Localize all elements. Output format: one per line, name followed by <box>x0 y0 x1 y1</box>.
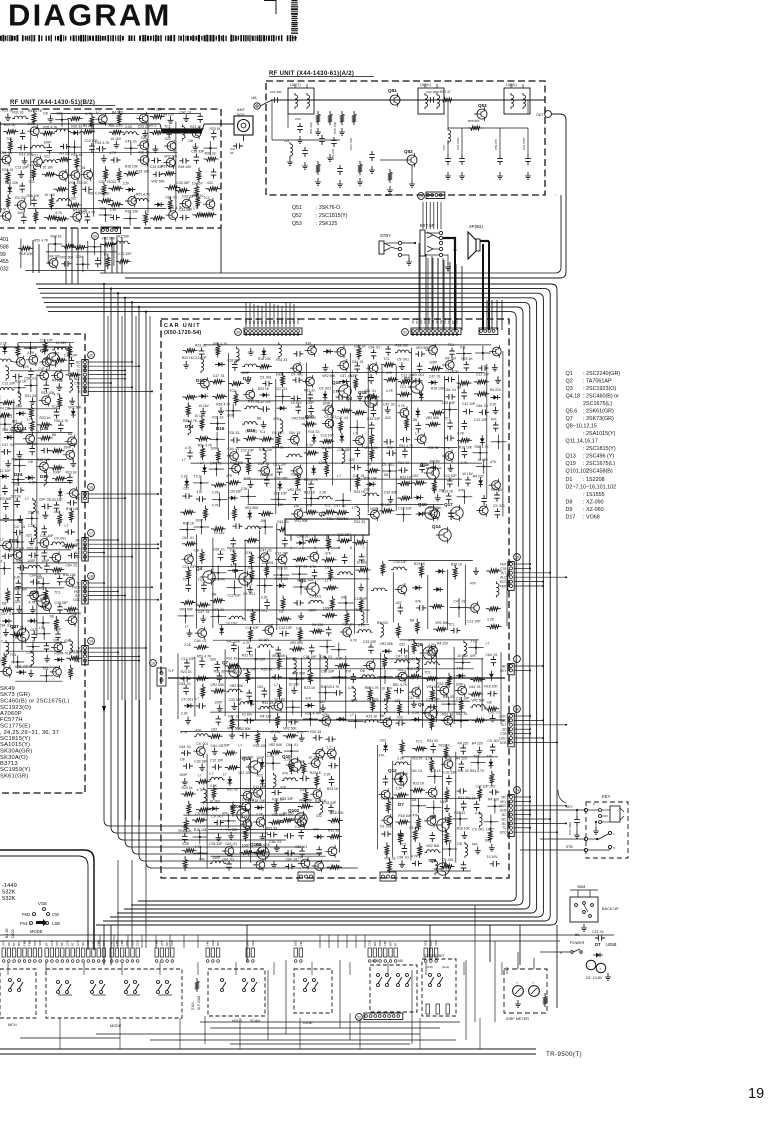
svg-text:L7: L7 <box>182 458 186 462</box>
svg-text:.022: .022 <box>395 601 402 605</box>
svg-text:10 16V: 10 16V <box>192 182 203 186</box>
svg-text:R18 10K: R18 10K <box>275 577 289 581</box>
svg-text:.022: .022 <box>394 699 401 703</box>
svg-text:C47 .01: C47 .01 <box>396 655 408 659</box>
svg-text:Q4: Q4 <box>196 566 203 571</box>
svg-text:TONE: TONE <box>302 1021 313 1025</box>
svg-text:10 16V: 10 16V <box>259 638 270 642</box>
svg-text:C33 33P: C33 33P <box>191 150 205 154</box>
svg-text:TC1: TC1 <box>230 549 237 553</box>
svg-text:TC1: TC1 <box>400 843 407 847</box>
svg-text:C64 .01: C64 .01 <box>211 744 223 748</box>
svg-text:STB: STB <box>566 845 573 849</box>
svg-text:VR2 50K: VR2 50K <box>299 799 313 803</box>
svg-text:.022: .022 <box>56 112 63 116</box>
svg-text:C12 10P: C12 10P <box>243 667 257 671</box>
svg-text:L7: L7 <box>238 743 242 747</box>
svg-text:R18 10K: R18 10K <box>398 814 412 818</box>
svg-text:C47 .01: C47 .01 <box>454 600 466 604</box>
svg-text:10 16V: 10 16V <box>110 137 121 141</box>
svg-text:D104: D104 <box>191 1002 195 1010</box>
svg-text:C47 .01: C47 .01 <box>383 402 395 406</box>
svg-text:CCB: CCB <box>136 940 140 946</box>
svg-text:FMR: FMR <box>155 940 159 946</box>
svg-text:2.2K: 2.2K <box>26 665 34 669</box>
svg-text:L7: L7 <box>353 431 357 435</box>
svg-text:R18 10K: R18 10K <box>395 772 409 776</box>
svg-text:2.2K: 2.2K <box>336 657 344 661</box>
svg-text:C33 33P: C33 33P <box>179 208 193 212</box>
svg-text:C51 39P: C51 39P <box>270 90 282 94</box>
svg-text:C64 .01: C64 .01 <box>486 653 498 657</box>
svg-text:10 16V: 10 16V <box>27 442 38 446</box>
svg-text:Q3: Q3 <box>232 568 239 573</box>
svg-text:4.7K: 4.7K <box>358 623 366 627</box>
svg-text:100P: 100P <box>214 701 223 705</box>
svg-text:B6: B6 <box>575 933 579 937</box>
svg-text:100P: 100P <box>276 372 285 376</box>
svg-text:C9 .001: C9 .001 <box>367 698 379 702</box>
svg-text:D14: D14 <box>185 424 194 429</box>
svg-text:10 16V: 10 16V <box>214 531 225 535</box>
svg-text:455: 455 <box>0 259 9 265</box>
svg-text:.022: .022 <box>396 796 403 800</box>
svg-text:RF UNIT (X44-1430-51)(B/2): RF UNIT (X44-1430-51)(B/2) <box>10 100 95 106</box>
svg-text:L7: L7 <box>39 626 43 630</box>
svg-text:.022: .022 <box>412 474 419 478</box>
svg-text:Q101: Q101 <box>230 804 242 809</box>
svg-text:TC1: TC1 <box>473 754 480 758</box>
svg-text:47K: 47K <box>415 599 422 603</box>
svg-text:47K: 47K <box>306 341 313 345</box>
svg-text:L7: L7 <box>195 697 199 701</box>
svg-text:.022: .022 <box>364 488 371 492</box>
svg-text:KEY: KEY <box>500 669 507 673</box>
svg-text:D8: D8 <box>278 503 282 507</box>
svg-text:100P: 100P <box>323 606 332 610</box>
svg-text:(X50-1720-54): (X50-1720-54) <box>164 330 201 336</box>
svg-text:100P: 100P <box>256 756 265 760</box>
svg-text:R51 4.7K: R51 4.7K <box>161 164 176 168</box>
svg-text:SCC: SCC <box>74 555 81 559</box>
svg-text:D8: D8 <box>412 798 416 802</box>
svg-text:2.2K: 2.2K <box>212 491 220 495</box>
svg-text:R31 33: R31 33 <box>139 151 150 155</box>
svg-text:C12 10P: C12 10P <box>462 402 476 406</box>
svg-text:S/RF METER: S/RF METER <box>506 1017 529 1021</box>
svg-text:DOC: DOC <box>499 804 507 808</box>
svg-text:MS: MS <box>17 942 21 946</box>
svg-text:R23 1K: R23 1K <box>366 714 378 718</box>
svg-text:D8: D8 <box>68 432 72 436</box>
svg-text:C12 10P: C12 10P <box>279 626 293 630</box>
svg-text:R18 10K: R18 10K <box>194 828 208 832</box>
svg-text:47K: 47K <box>306 504 313 508</box>
svg-text:VR2 50K: VR2 50K <box>294 519 308 523</box>
svg-text:Q7: Q7 <box>222 660 229 665</box>
svg-text:10 16V: 10 16V <box>289 682 300 686</box>
svg-text:HOLD: HOLD <box>232 1019 242 1023</box>
svg-text:L7: L7 <box>198 773 202 777</box>
svg-text:C47 .01: C47 .01 <box>488 711 500 715</box>
svg-text:C33 33P: C33 33P <box>49 498 63 502</box>
svg-text:C64 .01: C64 .01 <box>456 712 468 716</box>
svg-text:R23 1K: R23 1K <box>261 667 273 671</box>
svg-text:R23 1K: R23 1K <box>51 235 63 239</box>
svg-text:SBM: SBM <box>577 885 585 889</box>
svg-text:4.7K: 4.7K <box>86 112 94 116</box>
svg-text:100P: 100P <box>195 519 204 523</box>
svg-text:VGB: VGB <box>38 901 47 906</box>
svg-text:: 3SK73(GR): : 3SK73(GR) <box>583 416 614 422</box>
svg-text:TC1: TC1 <box>459 345 466 349</box>
svg-text:FMR: FMR <box>97 940 101 946</box>
svg-text:CCB: CCB <box>296 318 300 324</box>
svg-text:100P: 100P <box>226 414 235 418</box>
svg-text:47K: 47K <box>386 371 393 375</box>
svg-text:Q8: Q8 <box>430 814 437 819</box>
svg-text:R23 1K: R23 1K <box>327 787 339 791</box>
svg-text:10 16V: 10 16V <box>242 712 253 716</box>
svg-text:10 16V: 10 16V <box>43 165 54 169</box>
svg-text:TC: TC <box>502 826 507 830</box>
svg-text:VR2 50K: VR2 50K <box>60 255 74 259</box>
svg-text:R51 4.7K: R51 4.7K <box>54 419 69 423</box>
svg-text:R51 4.7K: R51 4.7K <box>43 125 58 129</box>
svg-text:C64 .01: C64 .01 <box>24 376 36 380</box>
svg-text:FM1: FM1 <box>110 940 114 946</box>
svg-text:C33 33P: C33 33P <box>442 401 456 405</box>
svg-text:C47 .01: C47 .01 <box>334 504 346 508</box>
svg-text:VR2 50K: VR2 50K <box>151 179 165 183</box>
svg-text:R31 33: R31 33 <box>262 701 273 705</box>
svg-text:VR2 50K: VR2 50K <box>245 506 259 510</box>
svg-text:TC1: TC1 <box>229 389 236 393</box>
svg-text:R31 33: R31 33 <box>276 358 287 362</box>
svg-text:100P: 100P <box>222 744 231 748</box>
svg-text:36: 36 <box>515 708 519 712</box>
svg-text:5: 5 <box>338 546 340 550</box>
svg-text:R51 4.7K: R51 4.7K <box>136 193 151 197</box>
svg-text:R4 220: R4 220 <box>488 797 499 801</box>
svg-text:TC1: TC1 <box>424 670 431 674</box>
svg-text:R23 1K: R23 1K <box>337 517 349 521</box>
svg-text:D7: D7 <box>398 802 404 807</box>
svg-text:R51 4.7K: R51 4.7K <box>365 686 380 690</box>
svg-text:4.7K: 4.7K <box>40 597 48 601</box>
svg-text:C9 .001: C9 .001 <box>493 504 505 508</box>
svg-text:TC1: TC1 <box>324 503 331 507</box>
svg-text:R23 1K: R23 1K <box>12 457 24 461</box>
svg-text:R31 33: R31 33 <box>25 394 36 398</box>
svg-text:4.7K: 4.7K <box>28 601 36 605</box>
svg-text:47K: 47K <box>470 654 477 658</box>
svg-text:VR2 50K: VR2 50K <box>288 488 302 492</box>
svg-text:47K: 47K <box>457 666 464 670</box>
svg-text:C64 .01: C64 .01 <box>295 845 307 849</box>
svg-text:R4 220: R4 220 <box>437 642 448 646</box>
svg-text:R18 10K: R18 10K <box>125 164 139 168</box>
svg-text:C64 .01: C64 .01 <box>277 520 289 524</box>
svg-text:2.2K: 2.2K <box>29 481 37 485</box>
svg-text:2: 2 <box>302 546 304 550</box>
svg-text:L7: L7 <box>15 636 19 640</box>
svg-text:R23 1K: R23 1K <box>400 475 412 479</box>
svg-text:C9 .001: C9 .001 <box>262 561 274 565</box>
svg-text:L7: L7 <box>194 207 198 211</box>
svg-text:Q27: Q27 <box>10 624 19 629</box>
svg-text:2.2K: 2.2K <box>351 699 359 703</box>
svg-text:10 16V: 10 16V <box>477 458 488 462</box>
svg-text:R23 1K: R23 1K <box>66 471 78 475</box>
svg-text:L19: L19 <box>284 139 289 143</box>
svg-text:C9 .001: C9 .001 <box>324 415 336 419</box>
svg-text:Q6: Q6 <box>418 702 425 707</box>
svg-text:C12 10P: C12 10P <box>40 338 54 342</box>
svg-text:SK30A(GR): SK30A(GR) <box>0 749 32 755</box>
svg-text:(0+A): (0+A) <box>442 965 449 969</box>
svg-text:C64 .01: C64 .01 <box>297 535 309 539</box>
svg-text:R23 1K: R23 1K <box>304 686 316 690</box>
svg-text:.022: .022 <box>318 700 325 704</box>
svg-text:2.2K: 2.2K <box>297 760 305 764</box>
svg-text:CTB: CTB <box>500 732 506 736</box>
svg-text:C9 .001: C9 .001 <box>442 858 454 862</box>
svg-text:47K: 47K <box>226 474 233 478</box>
svg-text:10 16V: 10 16V <box>194 414 205 418</box>
svg-text:L7: L7 <box>350 713 354 717</box>
svg-text:2.2K: 2.2K <box>181 712 189 716</box>
svg-text:401: 401 <box>0 237 9 243</box>
svg-text:R31 33: R31 33 <box>69 181 80 185</box>
svg-text:4.7K: 4.7K <box>457 432 465 436</box>
svg-text:D8: D8 <box>457 385 461 389</box>
svg-text:TC1: TC1 <box>32 153 39 157</box>
svg-text:.022: .022 <box>256 774 263 778</box>
svg-text:C12 10P: C12 10P <box>210 759 224 763</box>
svg-text:C33 33P: C33 33P <box>443 771 457 775</box>
svg-text:D8: D8 <box>50 615 54 619</box>
svg-text:C12 10P: C12 10P <box>40 534 54 538</box>
svg-text:D8: D8 <box>257 417 261 421</box>
svg-text:SCB: SCB <box>86 940 90 946</box>
svg-text:D8: D8 <box>485 839 489 843</box>
svg-text:C47 .01: C47 .01 <box>198 610 210 614</box>
svg-text:C12 10P: C12 10P <box>258 400 272 404</box>
svg-text:4.7K: 4.7K <box>443 447 451 451</box>
svg-text:L7: L7 <box>298 856 302 860</box>
svg-text:D9: D9 <box>566 507 573 513</box>
svg-text:C33 33P: C33 33P <box>321 670 335 674</box>
svg-text:C12 10P: C12 10P <box>37 458 51 462</box>
svg-text:NC: NC <box>7 942 11 946</box>
svg-text:C33 33P: C33 33P <box>363 640 377 644</box>
svg-text:NB: NB <box>398 959 403 963</box>
svg-text:L7: L7 <box>104 252 108 256</box>
svg-text:10 16V: 10 16V <box>270 730 281 734</box>
svg-text:, 24,25,29~31, 36, 37: , 24,25,29~31, 36, 37 <box>0 730 59 736</box>
svg-text:R18 10K: R18 10K <box>179 829 193 833</box>
svg-text:R18 10K: R18 10K <box>27 194 41 198</box>
svg-text:R31 33: R31 33 <box>304 389 315 393</box>
svg-text:D35: D35 <box>40 426 49 431</box>
svg-text:17: 17 <box>89 532 93 536</box>
svg-text:100P: 100P <box>456 683 465 687</box>
svg-text:L7: L7 <box>327 746 331 750</box>
svg-text:SCB: SCB <box>500 809 507 813</box>
svg-text:D8: D8 <box>188 139 192 143</box>
svg-text:BACK UP: BACK UP <box>602 907 619 911</box>
svg-text:D17: D17 <box>566 515 576 521</box>
svg-text:BT: BT <box>45 942 49 946</box>
svg-text:.022: .022 <box>489 785 496 789</box>
svg-text:3: 3 <box>314 546 316 550</box>
svg-text:SCB: SCB <box>38 940 42 946</box>
svg-text:L7: L7 <box>223 773 227 777</box>
svg-text:.022: .022 <box>247 565 254 569</box>
svg-text:100P: 100P <box>212 856 221 860</box>
svg-text:C59 47P: C59 47P <box>494 139 498 150</box>
svg-text:R18 10K: R18 10K <box>395 344 409 348</box>
svg-text:Q18: Q18 <box>358 390 367 395</box>
svg-text:TLF: TLF <box>168 669 174 673</box>
svg-text:C12 10P: C12 10P <box>118 252 132 256</box>
svg-text:47K: 47K <box>294 505 301 509</box>
svg-text:: 2SK125: : 2SK125 <box>316 221 337 227</box>
svg-text:R31 33: R31 33 <box>227 788 238 792</box>
svg-text:: 1S1555: : 1S1555 <box>583 492 605 498</box>
svg-text:R23 1K: R23 1K <box>491 488 503 492</box>
svg-text:Q51: Q51 <box>292 205 302 211</box>
svg-text:.022: .022 <box>43 155 50 159</box>
svg-text:4.7K: 4.7K <box>329 757 337 761</box>
svg-text:Q15: Q15 <box>420 462 429 467</box>
svg-text:D8: D8 <box>380 714 384 718</box>
svg-text:TC1: TC1 <box>183 577 190 581</box>
svg-text:C12 10P: C12 10P <box>273 463 287 467</box>
svg-text:STC: STC <box>55 940 59 946</box>
svg-text:L7: L7 <box>0 640 3 644</box>
svg-text:TC1: TC1 <box>259 430 266 434</box>
svg-text:C64 .01: C64 .01 <box>397 856 409 860</box>
svg-text:Q3: Q3 <box>566 386 573 392</box>
svg-text:D8: D8 <box>360 669 364 673</box>
svg-text:.022: .022 <box>206 181 213 185</box>
svg-text:R18 10K: R18 10K <box>178 165 192 169</box>
svg-text:C33 33P: C33 33P <box>367 417 381 421</box>
svg-text:C9 .001: C9 .001 <box>409 826 421 830</box>
svg-text:4.7K: 4.7K <box>428 643 436 647</box>
svg-text:TC1: TC1 <box>194 474 201 478</box>
svg-text:L55: L55 <box>442 145 446 150</box>
svg-text:VR2 50K: VR2 50K <box>416 346 430 350</box>
svg-text:C9 .001: C9 .001 <box>181 697 193 701</box>
svg-text:10 16V: 10 16V <box>291 401 302 405</box>
svg-text:D8: D8 <box>2 602 6 606</box>
svg-text:: 2SA1015(Y): : 2SA1015(Y) <box>583 431 616 437</box>
svg-text:C47 .01: C47 .01 <box>336 416 348 420</box>
svg-text:+: + <box>532 981 534 985</box>
svg-text:D8: D8 <box>279 609 283 613</box>
svg-text:L53(K): L53(K) <box>506 83 517 87</box>
svg-text:MODE: MODE <box>30 929 43 934</box>
svg-text:47K: 47K <box>470 581 477 585</box>
svg-text:2.2K: 2.2K <box>110 208 118 212</box>
svg-text:C62 100P: C62 100P <box>426 90 439 94</box>
svg-text:L7: L7 <box>337 474 341 478</box>
svg-text:R4 220: R4 220 <box>49 255 60 259</box>
svg-text:4.7K: 4.7K <box>194 845 202 849</box>
svg-text:TC1: TC1 <box>198 578 205 582</box>
svg-text:C12 10P: C12 10P <box>193 356 207 360</box>
svg-text:R51 22K: R51 22K <box>309 122 313 134</box>
svg-text:R31 33: R31 33 <box>308 430 319 434</box>
svg-text:D8: D8 <box>180 757 184 761</box>
svg-text:C12 10P: C12 10P <box>0 469 11 473</box>
svg-text:R51 4.7K: R51 4.7K <box>109 124 124 128</box>
svg-text:L7: L7 <box>325 579 329 583</box>
svg-text:DOC: DOC <box>73 598 81 602</box>
svg-text:10 16V: 10 16V <box>209 799 220 803</box>
svg-text:C64 .01: C64 .01 <box>213 548 225 552</box>
svg-text:ALC: ALC <box>74 659 81 663</box>
svg-text:CCB: CCB <box>455 318 459 324</box>
svg-text:Q11,14,16,17: Q11,14,16,17 <box>566 439 598 445</box>
svg-text:16: 16 <box>89 486 93 490</box>
svg-text:C9 .001: C9 .001 <box>382 463 394 467</box>
svg-text:L52(K): L52(K) <box>420 83 431 87</box>
svg-text:D8: D8 <box>566 500 573 506</box>
svg-text:C33 33P: C33 33P <box>323 801 337 805</box>
svg-text:FMR: FMR <box>115 940 119 946</box>
svg-text:R31 33: R31 33 <box>242 654 253 658</box>
svg-text:DC 13.8V: DC 13.8V <box>586 976 603 980</box>
svg-text:R31 33: R31 33 <box>212 416 223 420</box>
svg-text:10 16V: 10 16V <box>56 341 67 345</box>
svg-text:4P: 4P <box>446 268 450 272</box>
svg-text:.022: .022 <box>14 600 21 604</box>
svg-text:R23 1K: R23 1K <box>182 356 194 360</box>
svg-text:C12 10P: C12 10P <box>321 433 335 437</box>
svg-text:Q8~10,12,15: Q8~10,12,15 <box>566 424 597 430</box>
svg-text:D20: D20 <box>10 538 19 543</box>
svg-text:24: 24 <box>419 195 423 199</box>
svg-text:VR2 50K: VR2 50K <box>14 587 28 591</box>
svg-text:R4 220: R4 220 <box>458 742 469 746</box>
svg-text:D8: D8 <box>52 433 56 437</box>
svg-text:TC1: TC1 <box>261 609 268 613</box>
svg-text:C64 .01: C64 .01 <box>65 563 77 567</box>
svg-text:R18 10K: R18 10K <box>459 445 473 449</box>
svg-text:R55 82K: R55 82K <box>468 119 480 123</box>
svg-text:D16: D16 <box>247 428 256 433</box>
svg-text:100P: 100P <box>308 609 317 613</box>
svg-text:TC1: TC1 <box>150 124 157 128</box>
svg-text:SCB: SCB <box>500 741 507 745</box>
svg-text:C12 10P: C12 10P <box>64 354 78 358</box>
svg-text:FC577H: FC577H <box>0 717 23 723</box>
svg-text:C64 .01: C64 .01 <box>286 857 298 861</box>
svg-text:4.7K: 4.7K <box>348 686 356 690</box>
svg-text:R18 10K: R18 10K <box>230 461 244 465</box>
svg-text:R31 33: R31 33 <box>328 829 339 833</box>
svg-text:D8: D8 <box>261 519 265 523</box>
svg-text:R18 10K: R18 10K <box>63 573 77 577</box>
svg-text:.022: .022 <box>399 643 406 647</box>
svg-text:(0-B): (0-B) <box>426 965 433 969</box>
svg-text:C64 .01: C64 .01 <box>289 431 301 435</box>
svg-text:Q37: Q37 <box>40 348 49 353</box>
